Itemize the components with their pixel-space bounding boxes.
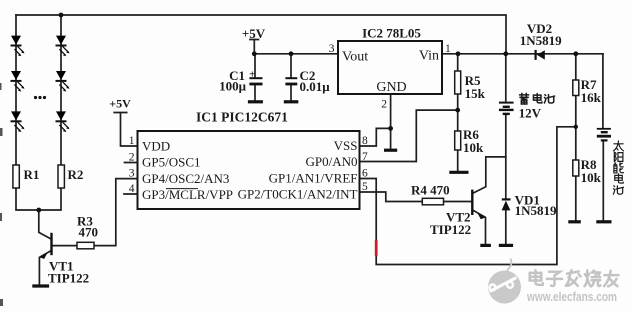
- svg-text:6: 6: [362, 168, 368, 180]
- svg-text:+5V: +5V: [109, 97, 131, 111]
- svg-text:15k: 15k: [465, 86, 486, 101]
- svg-text:Vin: Vin: [419, 49, 439, 64]
- svg-text:4: 4: [129, 183, 135, 195]
- svg-text:R2: R2: [68, 167, 84, 182]
- svg-text:7: 7: [362, 151, 368, 163]
- svg-text:10k: 10k: [463, 140, 484, 155]
- svg-text:R1: R1: [24, 167, 40, 182]
- svg-text:3: 3: [329, 43, 335, 55]
- svg-text:1N5819: 1N5819: [520, 33, 562, 48]
- svg-text:5: 5: [362, 181, 368, 193]
- svg-text:+: +: [249, 69, 255, 81]
- svg-text:GP5/OSC1: GP5/OSC1: [142, 155, 201, 170]
- svg-text:TIP122: TIP122: [430, 222, 471, 237]
- svg-text:0.01μ: 0.01μ: [300, 79, 331, 94]
- svg-text:2: 2: [129, 152, 135, 164]
- svg-text:3: 3: [129, 168, 135, 180]
- svg-text:1: 1: [129, 135, 135, 147]
- svg-text:12V: 12V: [519, 106, 542, 121]
- svg-text:VDD: VDD: [142, 139, 170, 154]
- svg-text:www.elecfans.com: www.elecfans.com: [526, 289, 617, 304]
- svg-text:GP1/AN1/VREF: GP1/AN1/VREF: [269, 171, 358, 186]
- svg-text:GND: GND: [376, 80, 406, 95]
- svg-text:R4 470: R4 470: [411, 183, 450, 198]
- svg-text:VSS: VSS: [334, 138, 358, 153]
- svg-text:1: 1: [445, 43, 451, 55]
- svg-text:TIP122: TIP122: [48, 271, 89, 286]
- svg-text:GP4/OSC2/AN3: GP4/OSC2/AN3: [142, 171, 229, 186]
- svg-text:100μ: 100μ: [219, 79, 247, 94]
- svg-text:IC2 78L05: IC2 78L05: [362, 26, 421, 41]
- svg-text:Vout: Vout: [342, 50, 368, 65]
- svg-text:16k: 16k: [581, 90, 602, 105]
- svg-text:GP2/T0CK1/AN2/INT: GP2/T0CK1/AN2/INT: [238, 187, 358, 202]
- svg-text:10k: 10k: [581, 170, 602, 185]
- svg-text:+5V: +5V: [242, 26, 266, 41]
- svg-text:GP0/AN0: GP0/AN0: [305, 154, 357, 169]
- svg-text:GP3/MCLR/VPP: GP3/MCLR/VPP: [142, 187, 233, 202]
- svg-text:1N5819: 1N5819: [515, 203, 557, 218]
- svg-text:2: 2: [381, 99, 387, 111]
- svg-text:470: 470: [79, 225, 99, 240]
- svg-text:IC1 PIC12C671: IC1 PIC12C671: [196, 110, 288, 125]
- svg-text:8: 8: [362, 135, 368, 147]
